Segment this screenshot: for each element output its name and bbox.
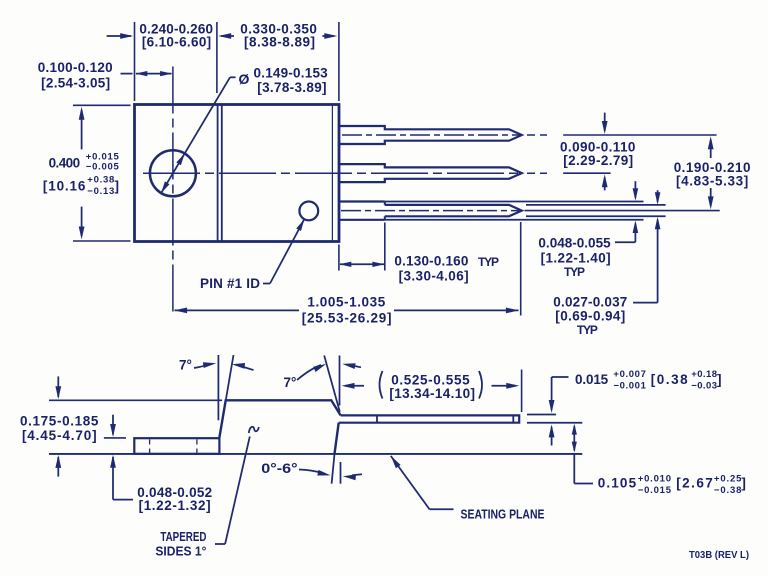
dimension 0.190-0.210 text bbox=[674, 160, 751, 189]
svg-text:SIDES 1°: SIDES 1° bbox=[155, 544, 206, 558]
mounting tab (side view) bbox=[134, 438, 219, 454]
svg-text:T03B (REV L): T03B (REV L) bbox=[689, 549, 749, 561]
svg-text:+0.007: +0.007 bbox=[613, 369, 646, 380]
extension line tab/body division bbox=[216, 22, 218, 93]
dimension 0.027-0.037 arrows bbox=[633, 190, 660, 302]
svg-text:]: ] bbox=[741, 476, 746, 491]
svg-text:TYP: TYP bbox=[478, 255, 499, 269]
extension line body right edge bbox=[338, 22, 340, 101]
svg-text:0.175-0.185: 0.175-0.185 bbox=[20, 413, 99, 428]
svg-text:[2.67: [2.67 bbox=[676, 476, 713, 491]
dimension 0.330-0.350 arrows bbox=[322, 33, 337, 39]
svg-text:+0.18: +0.18 bbox=[691, 369, 717, 380]
extension lines for 0.400 bbox=[73, 105, 131, 241]
svg-text:TYP: TYP bbox=[564, 265, 585, 279]
dimension 0.525-0.555 arrows bbox=[342, 370, 522, 413]
lead 2 (middle) bbox=[339, 164, 522, 182]
svg-text:[25.53-26.29]: [25.53-26.29] bbox=[302, 311, 392, 326]
dimension 0.130-0.160 text bbox=[394, 254, 499, 284]
lead 3 wide edge extension lines bbox=[385, 202, 644, 220]
dimension 0.240-0.260 text bbox=[139, 22, 213, 50]
dimension 0.015 arrows and leader bbox=[549, 377, 569, 446]
dimension 0.100-0.120 text bbox=[38, 60, 113, 91]
svg-text:[2.54-3.05]: [2.54-3.05] bbox=[41, 76, 110, 91]
dimension 0.105 arrows and leader bbox=[572, 424, 593, 484]
extension line tab left edge bbox=[134, 22, 136, 101]
svg-text:+0.25: +0.25 bbox=[714, 473, 742, 484]
right 7 deg slant extension bbox=[324, 356, 340, 412]
dimension 0.175-0.185 text bbox=[20, 413, 99, 443]
svg-text:[4.83-5.33]: [4.83-5.33] bbox=[676, 174, 748, 189]
svg-text:0.100-0.120: 0.100-0.120 bbox=[38, 60, 113, 75]
hole diameter text bbox=[239, 65, 329, 95]
angle 7 deg right label bbox=[284, 363, 361, 390]
svg-text:0.105: 0.105 bbox=[598, 475, 637, 490]
lower right slant extension bbox=[332, 454, 335, 484]
package body outline (top view) bbox=[135, 105, 340, 242]
pin #1 ID text bbox=[200, 276, 260, 291]
svg-text:−0.03: −0.03 bbox=[691, 381, 717, 392]
lead profile (side view) bbox=[339, 415, 520, 422]
lead 3 centerline bbox=[341, 210, 720, 212]
svg-text:SEATING PLANE: SEATING PLANE bbox=[461, 507, 545, 522]
seating plane text bbox=[461, 507, 545, 522]
svg-text:[6.10-6.60]: [6.10-6.60] bbox=[142, 35, 211, 50]
dimension 0.015 text bbox=[575, 369, 722, 392]
pin 1 ID dimple bbox=[299, 202, 318, 221]
dimension 0.027-0.037 text bbox=[553, 294, 627, 337]
dimension 0.525-0.555 text bbox=[380, 371, 483, 401]
extension line lead tips bbox=[520, 222, 522, 316]
dimension 0.240-0.260 arrows bbox=[107, 33, 234, 39]
svg-text:[3.78-3.89]: [3.78-3.89] bbox=[257, 80, 326, 95]
svg-text:[0.38: [0.38 bbox=[651, 372, 688, 387]
revision label bbox=[689, 549, 749, 561]
mounting hole vertical centerline bbox=[172, 67, 174, 316]
dimension 0.105 text bbox=[598, 473, 746, 496]
svg-text:[3.30-4.06]: [3.30-4.06] bbox=[399, 269, 469, 284]
dimension 0.190-0.210 line and arrows bbox=[708, 136, 714, 209]
mounting hole horizontal centerline / lead 2 centerline bbox=[143, 172, 611, 174]
svg-text:+0.38: +0.38 bbox=[87, 174, 114, 185]
svg-text:0.027-0.037: 0.027-0.037 bbox=[553, 294, 627, 309]
left 7 deg vertical reference bbox=[217, 355, 219, 420]
tab top extension line bbox=[104, 437, 126, 439]
dimension 1.005-1.035 text bbox=[302, 295, 392, 326]
dimension 0.048-0.055 text bbox=[538, 236, 611, 280]
tab hidden notch lines bbox=[150, 440, 197, 454]
dimension 0.400 text bbox=[43, 151, 120, 196]
svg-text:1.005-1.035: 1.005-1.035 bbox=[307, 295, 385, 310]
svg-text:]: ] bbox=[717, 372, 722, 387]
dimension 0.048-0.052 text bbox=[137, 485, 212, 513]
lead 3 (bottom) narrow section bbox=[385, 205, 522, 216]
dimension 0.400 arrows bbox=[79, 107, 85, 240]
inner mold line near right edge bbox=[331, 105, 333, 242]
svg-text:0.149-0.153: 0.149-0.153 bbox=[254, 65, 329, 80]
svg-text:+0.010: +0.010 bbox=[638, 473, 671, 484]
svg-text:0.400: 0.400 bbox=[49, 156, 81, 171]
svg-text:[13.34-14.10]: [13.34-14.10] bbox=[389, 386, 475, 401]
svg-text:0.015: 0.015 bbox=[575, 372, 609, 387]
svg-text:7°: 7° bbox=[284, 375, 297, 390]
tapered sides leader with squiggle bbox=[215, 427, 259, 544]
dimension 0.130-0.160 line and arrows bbox=[339, 262, 384, 267]
svg-text:0.130-0.160: 0.130-0.160 bbox=[394, 254, 468, 269]
left 7 deg slant extension bbox=[219, 355, 233, 438]
svg-text:[1.22-1.40]: [1.22-1.40] bbox=[541, 251, 611, 266]
dimension 1.005-1.035 line and arrows bbox=[174, 308, 519, 314]
svg-text:−0.005: −0.005 bbox=[86, 161, 120, 172]
svg-text:Ø: Ø bbox=[239, 71, 250, 87]
tab-body division line (double) bbox=[218, 105, 222, 242]
lead 1 (top) bbox=[339, 126, 522, 144]
svg-text:[4.45-4.70]: [4.45-4.70] bbox=[22, 428, 97, 443]
dimension 0.048-0.055 arrows bbox=[615, 181, 638, 242]
hole diameter leader line bbox=[161, 77, 235, 193]
dimension 0.048-0.052 arrows and leader bbox=[110, 415, 133, 500]
svg-text:TAPERED: TAPERED bbox=[160, 530, 206, 544]
lower right vertical reference bbox=[340, 462, 342, 484]
dimension 0.330-0.350 text bbox=[240, 22, 317, 50]
angle 7 deg left label bbox=[179, 358, 253, 373]
seating plane callout bbox=[391, 456, 454, 509]
pin #1 ID leader bbox=[263, 219, 304, 283]
dimension 0.090-0.110 arrows bbox=[602, 113, 608, 191]
svg-text:PIN #1 ID: PIN #1 ID bbox=[200, 276, 260, 291]
svg-text:]: ] bbox=[115, 179, 120, 194]
svg-text:−0.38: −0.38 bbox=[714, 485, 742, 496]
angle 0-6 deg label bbox=[261, 461, 362, 480]
svg-text:[0.69-0.94]: [0.69-0.94] bbox=[555, 309, 625, 324]
dimension 0.090-0.110 text bbox=[560, 140, 635, 169]
dimension 0.015 tick lines bbox=[527, 415, 582, 423]
body profile (side view) bbox=[219, 400, 340, 454]
svg-text:[10.16: [10.16 bbox=[43, 179, 86, 194]
svg-text:[1.22-1.32]: [1.22-1.32] bbox=[139, 498, 211, 513]
svg-text:[8.38-8.89]: [8.38-8.89] bbox=[244, 35, 315, 50]
extension lines for 0.130-0.160 bbox=[339, 223, 385, 271]
body top extension line left bbox=[49, 399, 222, 401]
lead 3 wide-section edges bbox=[339, 202, 385, 220]
seating plane line bbox=[49, 453, 582, 455]
svg-text:0.048-0.055: 0.048-0.055 bbox=[538, 236, 611, 251]
dimension 0.100-0.120 line and arrows bbox=[121, 71, 173, 76]
lead 1 centerline bbox=[342, 134, 717, 136]
svg-text:−0.001: −0.001 bbox=[613, 381, 646, 392]
svg-text:TYP: TYP bbox=[577, 323, 598, 337]
svg-text:−0.13: −0.13 bbox=[87, 186, 114, 197]
lead 3 narrow edge extension lines bbox=[526, 205, 666, 216]
right 7 deg vertical reference bbox=[339, 356, 341, 406]
svg-text:−0.015: −0.015 bbox=[638, 485, 672, 496]
svg-text:[2.29-2.79]: [2.29-2.79] bbox=[563, 153, 633, 168]
tapered sides text bbox=[155, 530, 206, 558]
mounting hole bbox=[150, 150, 196, 196]
svg-text:7°: 7° bbox=[179, 358, 192, 373]
svg-text:0°-6°: 0°-6° bbox=[261, 461, 297, 476]
dimension 0.175-0.185 arrows bbox=[55, 376, 61, 476]
